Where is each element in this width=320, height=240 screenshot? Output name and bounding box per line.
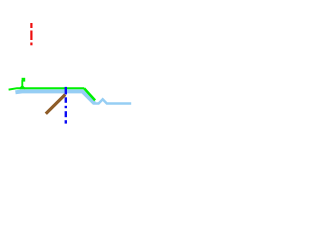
green main line	[9, 88, 85, 89]
dark blue dash 1	[65, 97, 67, 103]
dark blue dot 1	[65, 106, 67, 108]
light blue thick band	[15, 91, 94, 103]
light blue thin line with bump	[94, 99, 132, 103]
green branch mast	[21, 80, 23, 87]
dark blue dash 3	[65, 120, 67, 123]
dark blue dash 2	[65, 111, 67, 117]
green diagonal segment	[84, 88, 95, 100]
red dashed line segment 1	[30, 23, 32, 28]
green branch knob	[22, 78, 26, 82]
dark blue solid segment crossing bands	[65, 87, 67, 95]
brown diagonal line	[46, 95, 65, 114]
red dashed line segment 3	[30, 43, 32, 46]
red dashed line segment 2	[30, 31, 32, 41]
green branch flare right	[22, 86, 25, 89]
green branch flare left	[20, 86, 23, 89]
